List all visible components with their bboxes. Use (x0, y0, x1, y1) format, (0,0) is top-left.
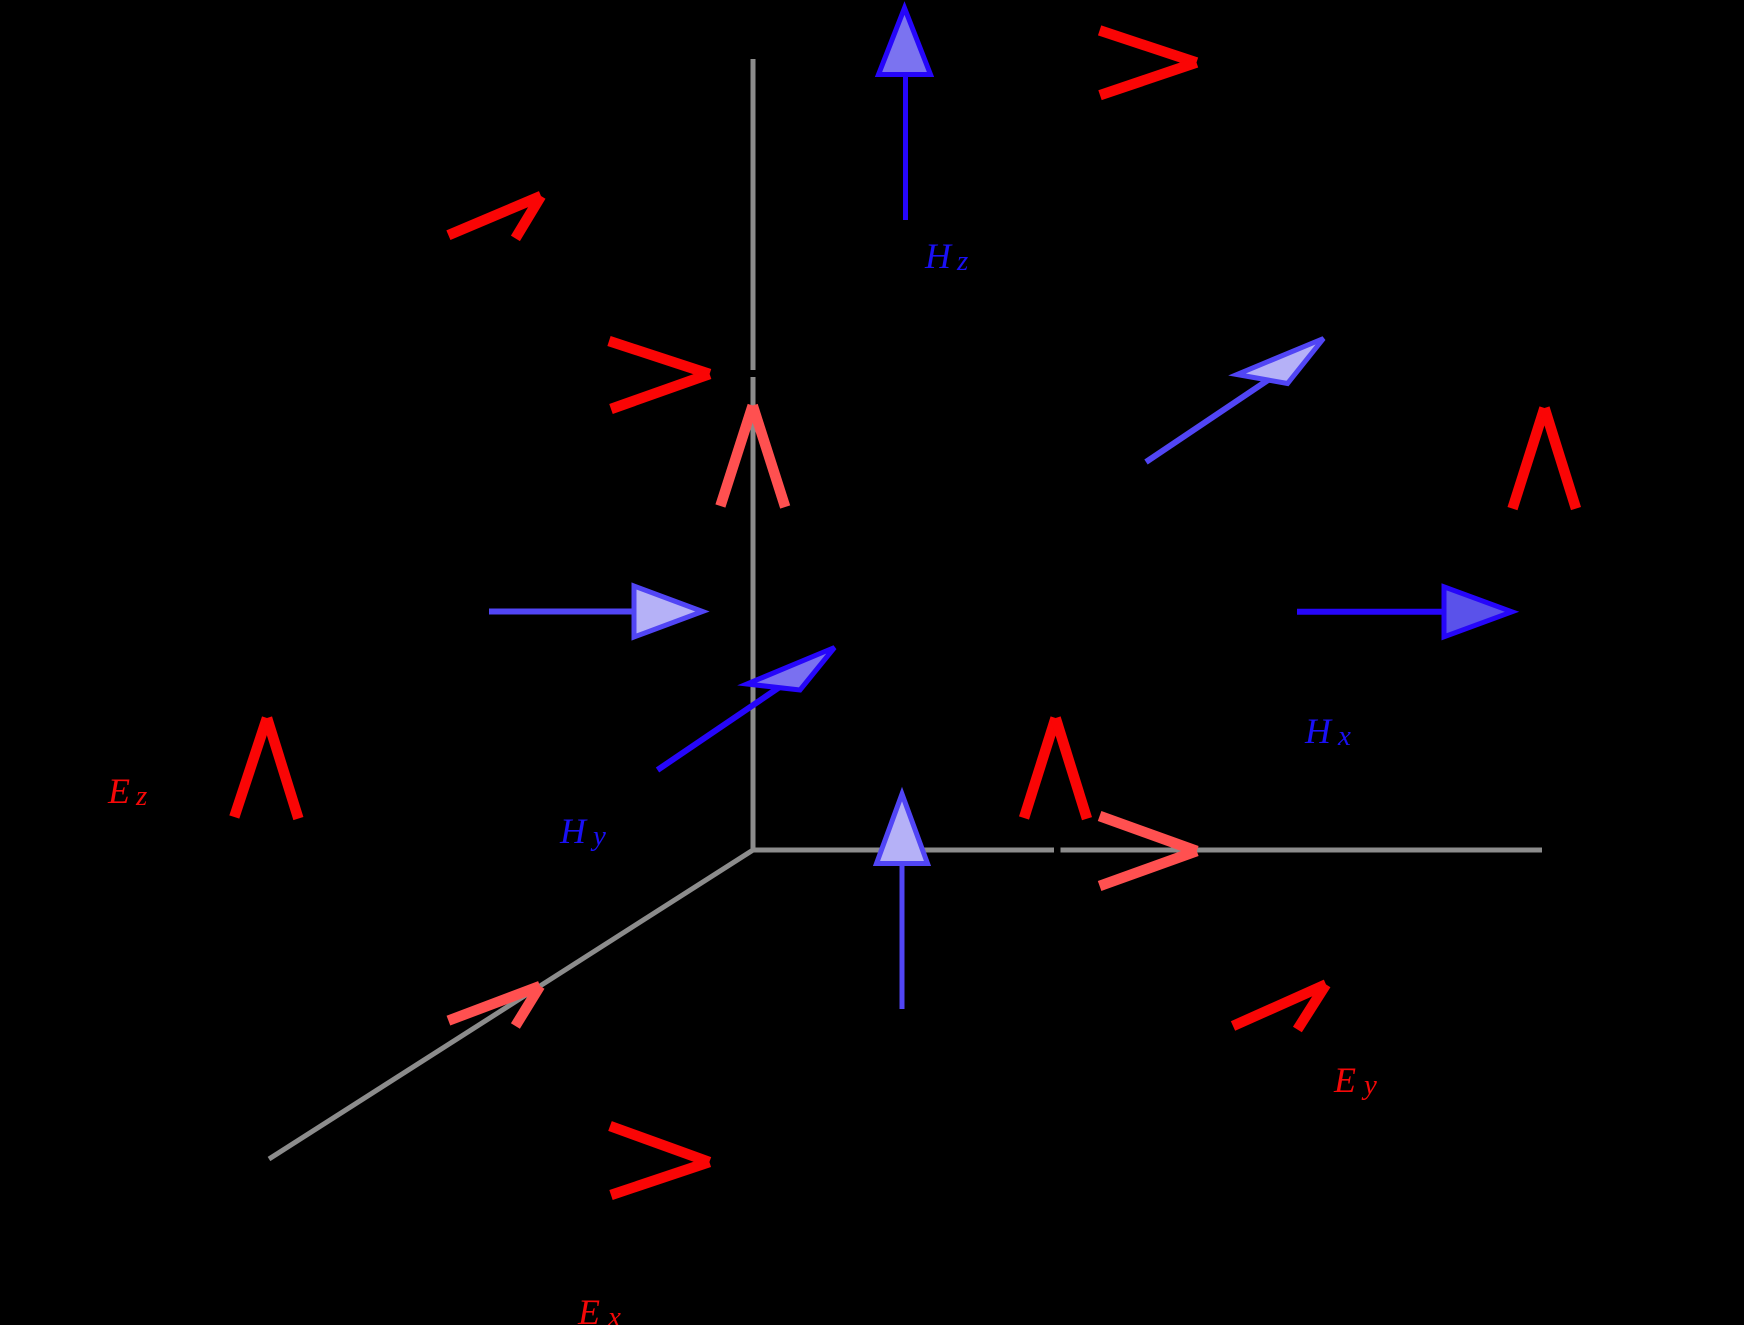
svg-text:E: E (107, 771, 130, 811)
svg-text:z: z (135, 780, 147, 812)
svg-text:y: y (590, 820, 606, 852)
svg-text:E: E (577, 1292, 600, 1325)
svg-text:y: y (1361, 1069, 1377, 1101)
svg-text:x: x (607, 1301, 621, 1325)
svg-text:H: H (1304, 711, 1333, 751)
svg-text:E: E (1333, 1060, 1356, 1100)
svg-text:x: x (1337, 720, 1351, 752)
svg-text:z: z (956, 245, 968, 277)
svg-text:H: H (924, 236, 953, 276)
svg-text:H: H (559, 811, 588, 851)
